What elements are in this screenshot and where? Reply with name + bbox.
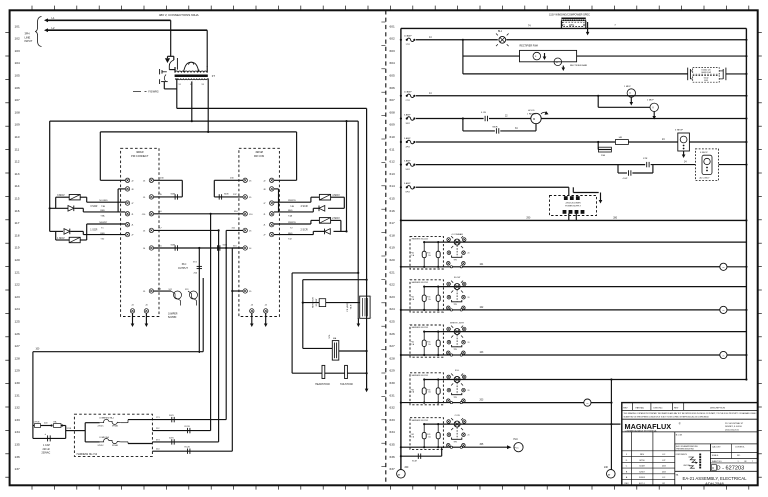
svg-text:FT: FT — [212, 74, 216, 78]
svg-text:HR: HR — [619, 137, 623, 139]
svg-text:115V.: 115V. — [569, 25, 575, 27]
svg-text:SDB: SDB — [171, 244, 176, 246]
svg-text:D - 627203: D - 627203 — [717, 465, 745, 471]
svg-text:22A: 22A — [601, 154, 605, 157]
svg-text:PLC: PLC — [515, 447, 520, 449]
svg-text:RECTIFIER FWA: RECTIFIER FWA — [520, 45, 539, 48]
svg-text:PRWTE: PRWTE — [288, 222, 296, 224]
svg-text:FILL: FILL — [455, 370, 460, 372]
svg-text:NO.8RD: NO.8RD — [99, 200, 108, 202]
svg-text:601: 601 — [390, 24, 395, 28]
svg-text:127: 127 — [15, 344, 20, 348]
svg-text:628: 628 — [390, 356, 395, 360]
svg-text:111: 111 — [15, 147, 20, 151]
svg-text:2 SCR: 2 SCR — [301, 228, 308, 231]
svg-text:TAILSTOCK: TAILSTOCK — [340, 383, 353, 386]
svg-text:OHMS 50W: OHMS 50W — [701, 72, 711, 74]
svg-text:613: 613 — [390, 172, 395, 176]
svg-text:DESCRIPTION: DESCRIPTION — [710, 408, 725, 410]
svg-text:RC26: RC26 — [185, 447, 191, 449]
svg-text:1 SCR: 1 SCR — [90, 228, 97, 231]
svg-text:635: 635 — [390, 443, 395, 447]
svg-text:H4: H4 — [197, 70, 199, 72]
svg-text:4 HP: 4 HP — [623, 178, 628, 180]
svg-text:118: 118 — [15, 233, 20, 237]
svg-text:605: 605 — [390, 74, 395, 78]
svg-text:3PRA5: 3PRA5 — [112, 425, 118, 428]
svg-text:MDR: MDR — [493, 127, 498, 129]
svg-text:SCM: SCM — [412, 461, 417, 463]
svg-text:X3: X3 — [202, 84, 204, 86]
svg-text:131: 131 — [15, 393, 20, 397]
svg-text:PRI CONNECT: PRI CONNECT — [131, 155, 149, 158]
svg-text:LIC: LIC — [662, 477, 666, 479]
svg-text:129: 129 — [15, 369, 20, 373]
svg-text:50R05: 50R05 — [639, 477, 646, 479]
svg-text:137: 137 — [15, 467, 20, 471]
svg-text:SDB: SDB — [171, 194, 176, 196]
svg-text:108: 108 — [15, 110, 20, 114]
svg-text:INPUT: INPUT — [25, 39, 33, 43]
svg-text:1 REGUL: 1 REGUL — [527, 113, 537, 115]
svg-text:3F/2: 3F/2 — [406, 123, 411, 125]
svg-text:®: ® — [679, 422, 681, 426]
svg-text:X1: X1 — [179, 84, 181, 86]
svg-text:1: 1 — [443, 253, 444, 255]
svg-text:NFWRT: NFWRT — [99, 222, 108, 224]
svg-text:62567: 62567 — [639, 471, 645, 473]
svg-text:10 AMP: 10 AMP — [404, 91, 412, 94]
svg-text:20: 20 — [468, 342, 470, 344]
svg-text:629: 629 — [390, 369, 395, 373]
svg-text:4 NEOP: 4 NEOP — [700, 152, 708, 154]
svg-text:RED: RED — [100, 233, 105, 235]
svg-text:608: 608 — [390, 110, 395, 114]
svg-text:ECO #: ECO # — [639, 483, 646, 485]
svg-text:620: 620 — [390, 258, 395, 262]
svg-text:626: 626 — [390, 332, 395, 336]
svg-text:619: 619 — [390, 246, 395, 250]
svg-text:SDB: SDB — [224, 194, 229, 196]
svg-text:1T/2: 1T/2 — [406, 44, 411, 46]
svg-text:5F/2: 5F/2 — [406, 169, 411, 171]
svg-text:AL CONLY: AL CONLY — [700, 176, 711, 179]
svg-text:CAL LIST: CAL LIST — [712, 446, 721, 449]
svg-text:621: 621 — [390, 270, 395, 274]
svg-text:524/580: 524/580 — [168, 317, 177, 319]
svg-text:20: 20 — [468, 390, 470, 392]
svg-text:HARNESS NU-1205: HARNESS NU-1205 — [412, 374, 428, 377]
svg-text:3PH: 3PH — [25, 32, 30, 36]
svg-text:FRI CON: FRI CON — [254, 155, 264, 158]
svg-text:COMBINED EA-1: COMBINED EA-1 — [99, 417, 114, 420]
svg-text:SDB: SDB — [223, 244, 228, 246]
svg-text:116: 116 — [15, 209, 20, 213]
svg-text:REV: REV — [624, 483, 629, 485]
svg-text:632: 632 — [390, 406, 395, 410]
svg-text:HMC NDI: HMC NDI — [684, 465, 691, 467]
svg-text:THIS DRAWING CONTAINS PROPRIET: THIS DRAWING CONTAINS PROPRIETARY INFORM… — [624, 412, 759, 415]
svg-text:TE-R: TE-R — [351, 304, 353, 309]
svg-text:4 MOV: 4 MOV — [332, 194, 340, 197]
svg-text:M: M — [533, 117, 535, 121]
svg-text:ADH-2546: ADH-2546 — [705, 481, 724, 486]
svg-text:614: 614 — [390, 184, 395, 188]
svg-text:LIC: LIC — [662, 454, 666, 456]
svg-text:T3B: T3B — [101, 206, 106, 208]
svg-text:PLC: PLC — [514, 439, 519, 441]
svg-text:1: 1 — [443, 435, 444, 437]
svg-text:109: 109 — [15, 123, 20, 127]
svg-text:120: 120 — [15, 258, 20, 262]
svg-text:LINE: LINE — [25, 35, 31, 39]
svg-text:CON: CON — [455, 415, 460, 417]
svg-text:126: 126 — [15, 332, 20, 336]
svg-text:50W: 50W — [704, 80, 708, 82]
svg-text:1: 1 — [443, 390, 444, 392]
svg-text:128: 128 — [15, 356, 20, 360]
svg-text:123: 123 — [15, 295, 20, 299]
svg-text:STR: STR — [643, 158, 648, 160]
svg-text:624: 624 — [390, 307, 395, 311]
svg-text:134: 134 — [15, 430, 20, 434]
svg-text:618: 618 — [390, 233, 395, 237]
svg-text:622: 622 — [390, 283, 395, 287]
svg-text:REV: REV — [640, 454, 645, 456]
svg-text:ar: ar — [398, 473, 400, 476]
svg-text:RED: RED — [288, 210, 293, 212]
svg-text:5 AMP: 5 AMP — [404, 137, 411, 140]
svg-text:H3: H3 — [583, 24, 585, 26]
svg-text:634: 634 — [390, 430, 395, 434]
svg-text:T3A: T3A — [100, 215, 105, 218]
svg-text:6 CB: 6 CB — [481, 112, 486, 114]
svg-text:1 MDP: 1 MDP — [624, 86, 631, 88]
svg-text:106: 106 — [15, 86, 20, 90]
svg-text:124: 124 — [15, 307, 20, 311]
svg-text:200VAC: 200VAC — [42, 452, 51, 455]
svg-text:20: 20 — [468, 297, 470, 299]
svg-text:REV: REV — [674, 407, 679, 409]
svg-text:SUBMITTED ON THE EXPRESS CONDI: SUBMITTED ON THE EXPRESS CONDITION IT IS… — [624, 416, 710, 418]
svg-text:50109: 50109 — [639, 466, 645, 468]
svg-text:633: 633 — [390, 418, 395, 422]
svg-text:125: 125 — [15, 320, 20, 324]
svg-text:3PRA5: 3PRA5 — [112, 444, 118, 447]
svg-text:H2: H2 — [563, 24, 565, 26]
svg-text:121: 121 — [15, 270, 20, 274]
svg-text:FE (AVR): FE (AVR) — [346, 302, 349, 311]
svg-text:602: 602 — [390, 37, 395, 41]
svg-text:115: 115 — [15, 197, 20, 201]
svg-text:W700: W700 — [639, 460, 645, 462]
svg-text:5 AMP: 5 AMP — [404, 182, 411, 185]
svg-text:105: 105 — [15, 74, 20, 78]
svg-text:10 AMP: 10 AMP — [404, 35, 412, 38]
svg-text:DLB: DLB — [662, 471, 667, 473]
svg-text:616: 616 — [390, 209, 395, 213]
svg-text:6 NEOP: 6 NEOP — [675, 130, 684, 132]
svg-text:PLC: PLC — [182, 263, 187, 266]
svg-text:103: 103 — [15, 49, 20, 53]
svg-text:102: 102 — [15, 37, 20, 41]
svg-text:104: 104 — [15, 61, 20, 65]
svg-text:SCALE:: SCALE: — [712, 454, 719, 457]
svg-text:611: 611 — [390, 147, 395, 151]
svg-text:637: 637 — [390, 467, 395, 471]
svg-text:607: 607 — [390, 98, 395, 102]
svg-text:3Ø/1Ø: 3Ø/1Ø — [255, 151, 262, 154]
svg-text:135: 135 — [15, 443, 20, 447]
svg-text:RECTIFIER FAIR: RECTIFIER FAIR — [570, 64, 587, 67]
svg-text:2 MDP: 2 MDP — [647, 100, 654, 102]
svg-text:ar: ar — [608, 473, 610, 476]
svg-text:HEADSTOCK: HEADSTOCK — [315, 383, 330, 386]
svg-text:HARNESS NU-712: HARNESS NU-712 — [77, 453, 98, 456]
svg-text:B.O.M.: B.O.M. — [676, 435, 683, 437]
svg-text:2 MOV: 2 MOV — [332, 217, 340, 220]
svg-text:606: 606 — [390, 86, 395, 90]
svg-text:115V WINDING/COMPOWER SPEC: 115V WINDING/COMPOWER SPEC — [549, 14, 590, 17]
svg-text:24VDC: 24VDC — [98, 426, 105, 428]
svg-text:3 SCR: 3 SCR — [90, 205, 97, 208]
svg-text:2T/2: 2T/2 — [406, 100, 411, 102]
svg-text:COMPONENTS: COMPONENTS — [675, 454, 686, 456]
svg-text:133: 133 — [15, 418, 20, 422]
svg-text:POWER SUPPLY: POWER SUPPLY — [565, 206, 582, 208]
svg-text:F/S/WRG: F/S/WRG — [148, 91, 158, 94]
svg-text:110: 110 — [15, 135, 20, 139]
svg-text:615: 615 — [390, 197, 395, 201]
svg-text:122: 122 — [15, 283, 20, 287]
svg-text:CONTROL: CONTROL — [735, 447, 746, 449]
svg-text:1: 1 — [443, 297, 444, 299]
svg-text:COMPANIES ADVANCE TEK ESSENTIA: COMPANIES ADVANCE TEK ESSENTIAL — [625, 429, 657, 432]
svg-text:T4A: T4A — [288, 215, 293, 218]
svg-text:PARTIAL: PARTIAL — [636, 406, 645, 409]
svg-text:5 AMP: 5 AMP — [404, 113, 411, 116]
svg-text:631: 631 — [390, 393, 395, 397]
svg-text:4 COMBAR: 4 COMBAR — [451, 233, 463, 236]
svg-text:4 SCR: 4 SCR — [301, 205, 308, 208]
svg-text:WHITE LIGHT: WHITE LIGHT — [450, 322, 465, 324]
svg-text:132: 132 — [15, 406, 20, 410]
svg-text:603: 603 — [390, 49, 395, 53]
svg-text:1 FUB: 1 FUB — [34, 421, 41, 423]
svg-text:627: 627 — [390, 344, 395, 348]
svg-text:COMB 2EA: COMB 2EA — [99, 436, 110, 439]
svg-text:3Ø/1Ø: 3Ø/1Ø — [136, 151, 143, 154]
svg-text:113: 113 — [15, 172, 20, 176]
svg-text:T4B: T4B — [290, 206, 295, 208]
svg-text:OUTPUT: OUTPUT — [178, 267, 188, 270]
svg-text:480 V, CONNECTIONS 60HA: 480 V, CONNECTIONS 60HA — [159, 13, 199, 17]
svg-text:130: 130 — [15, 381, 20, 385]
svg-text:20: 20 — [468, 253, 470, 255]
svg-text:DLB: DLB — [662, 466, 667, 468]
svg-text:101: 101 — [15, 24, 20, 28]
svg-text:REV: REV — [623, 407, 628, 409]
svg-text:5 AMP: 5 AMP — [404, 159, 411, 162]
svg-text:6F/2: 6F/2 — [406, 192, 411, 194]
svg-text:609: 609 — [390, 123, 395, 127]
svg-text:21C HOUSTRAL ST: 21C HOUSTRAL ST — [725, 422, 744, 425]
svg-text:24VDC/DC/WER: 24VDC/DC/WER — [565, 203, 581, 205]
svg-text:623: 623 — [390, 295, 395, 299]
svg-text:(312) 433-2131: (312) 433-2131 — [725, 429, 740, 431]
svg-text:630: 630 — [390, 381, 395, 385]
svg-text:1: 1 — [443, 342, 444, 344]
svg-text:D: D — [712, 467, 714, 470]
svg-text:PRWTE: PRWTE — [288, 200, 296, 202]
svg-text:20: 20 — [468, 435, 470, 437]
svg-text:RC26: RC26 — [185, 426, 191, 428]
svg-text:625: 625 — [390, 320, 395, 324]
svg-text:604: 604 — [390, 61, 395, 65]
svg-text:JUMPER: JUMPER — [168, 314, 178, 316]
svg-text:DWG NO.: DWG NO. — [654, 407, 664, 409]
svg-text:220 uF: 220 uF — [43, 448, 51, 451]
svg-text:112: 112 — [15, 160, 20, 164]
svg-text:114: 114 — [15, 184, 20, 188]
svg-text:117: 117 — [15, 221, 20, 225]
svg-text:FLOW: FLOW — [454, 277, 461, 279]
svg-text:4F/2: 4F/2 — [406, 146, 411, 148]
svg-text:HOOD: HOOD — [528, 110, 535, 112]
svg-text:107: 107 — [15, 98, 20, 102]
svg-text:612: 612 — [390, 160, 395, 164]
svg-text:136: 136 — [15, 455, 20, 459]
svg-text:NO.: NO. — [737, 455, 741, 457]
svg-text:1 CAP: 1 CAP — [43, 444, 50, 447]
svg-text:BL1: BL1 — [498, 31, 503, 33]
svg-text:PREVIEWS MOUNTING: PREVIEWS MOUNTING — [676, 449, 694, 451]
svg-text:RED: RED — [288, 233, 293, 235]
svg-text:HARNESS NU-1205: HARNESS NU-1205 — [412, 419, 428, 422]
svg-text:119: 119 — [15, 246, 20, 250]
svg-text:HARNESS NU-1205: HARNESS NU-1205 — [412, 326, 428, 329]
svg-text:DEVNFY, IL 60196: DEVNFY, IL 60196 — [725, 426, 743, 428]
svg-text:HARNESS NU-1205: HARNESS NU-1205 — [412, 238, 428, 241]
svg-text:24VDC: 24VDC — [98, 445, 105, 447]
svg-text:636: 636 — [390, 455, 395, 459]
svg-text:617: 617 — [390, 221, 395, 225]
svg-text:610: 610 — [390, 135, 395, 139]
svg-text:RED: RED — [100, 210, 105, 212]
svg-text:HARNESS NU-1205: HARNESS NU-1205 — [412, 281, 428, 284]
